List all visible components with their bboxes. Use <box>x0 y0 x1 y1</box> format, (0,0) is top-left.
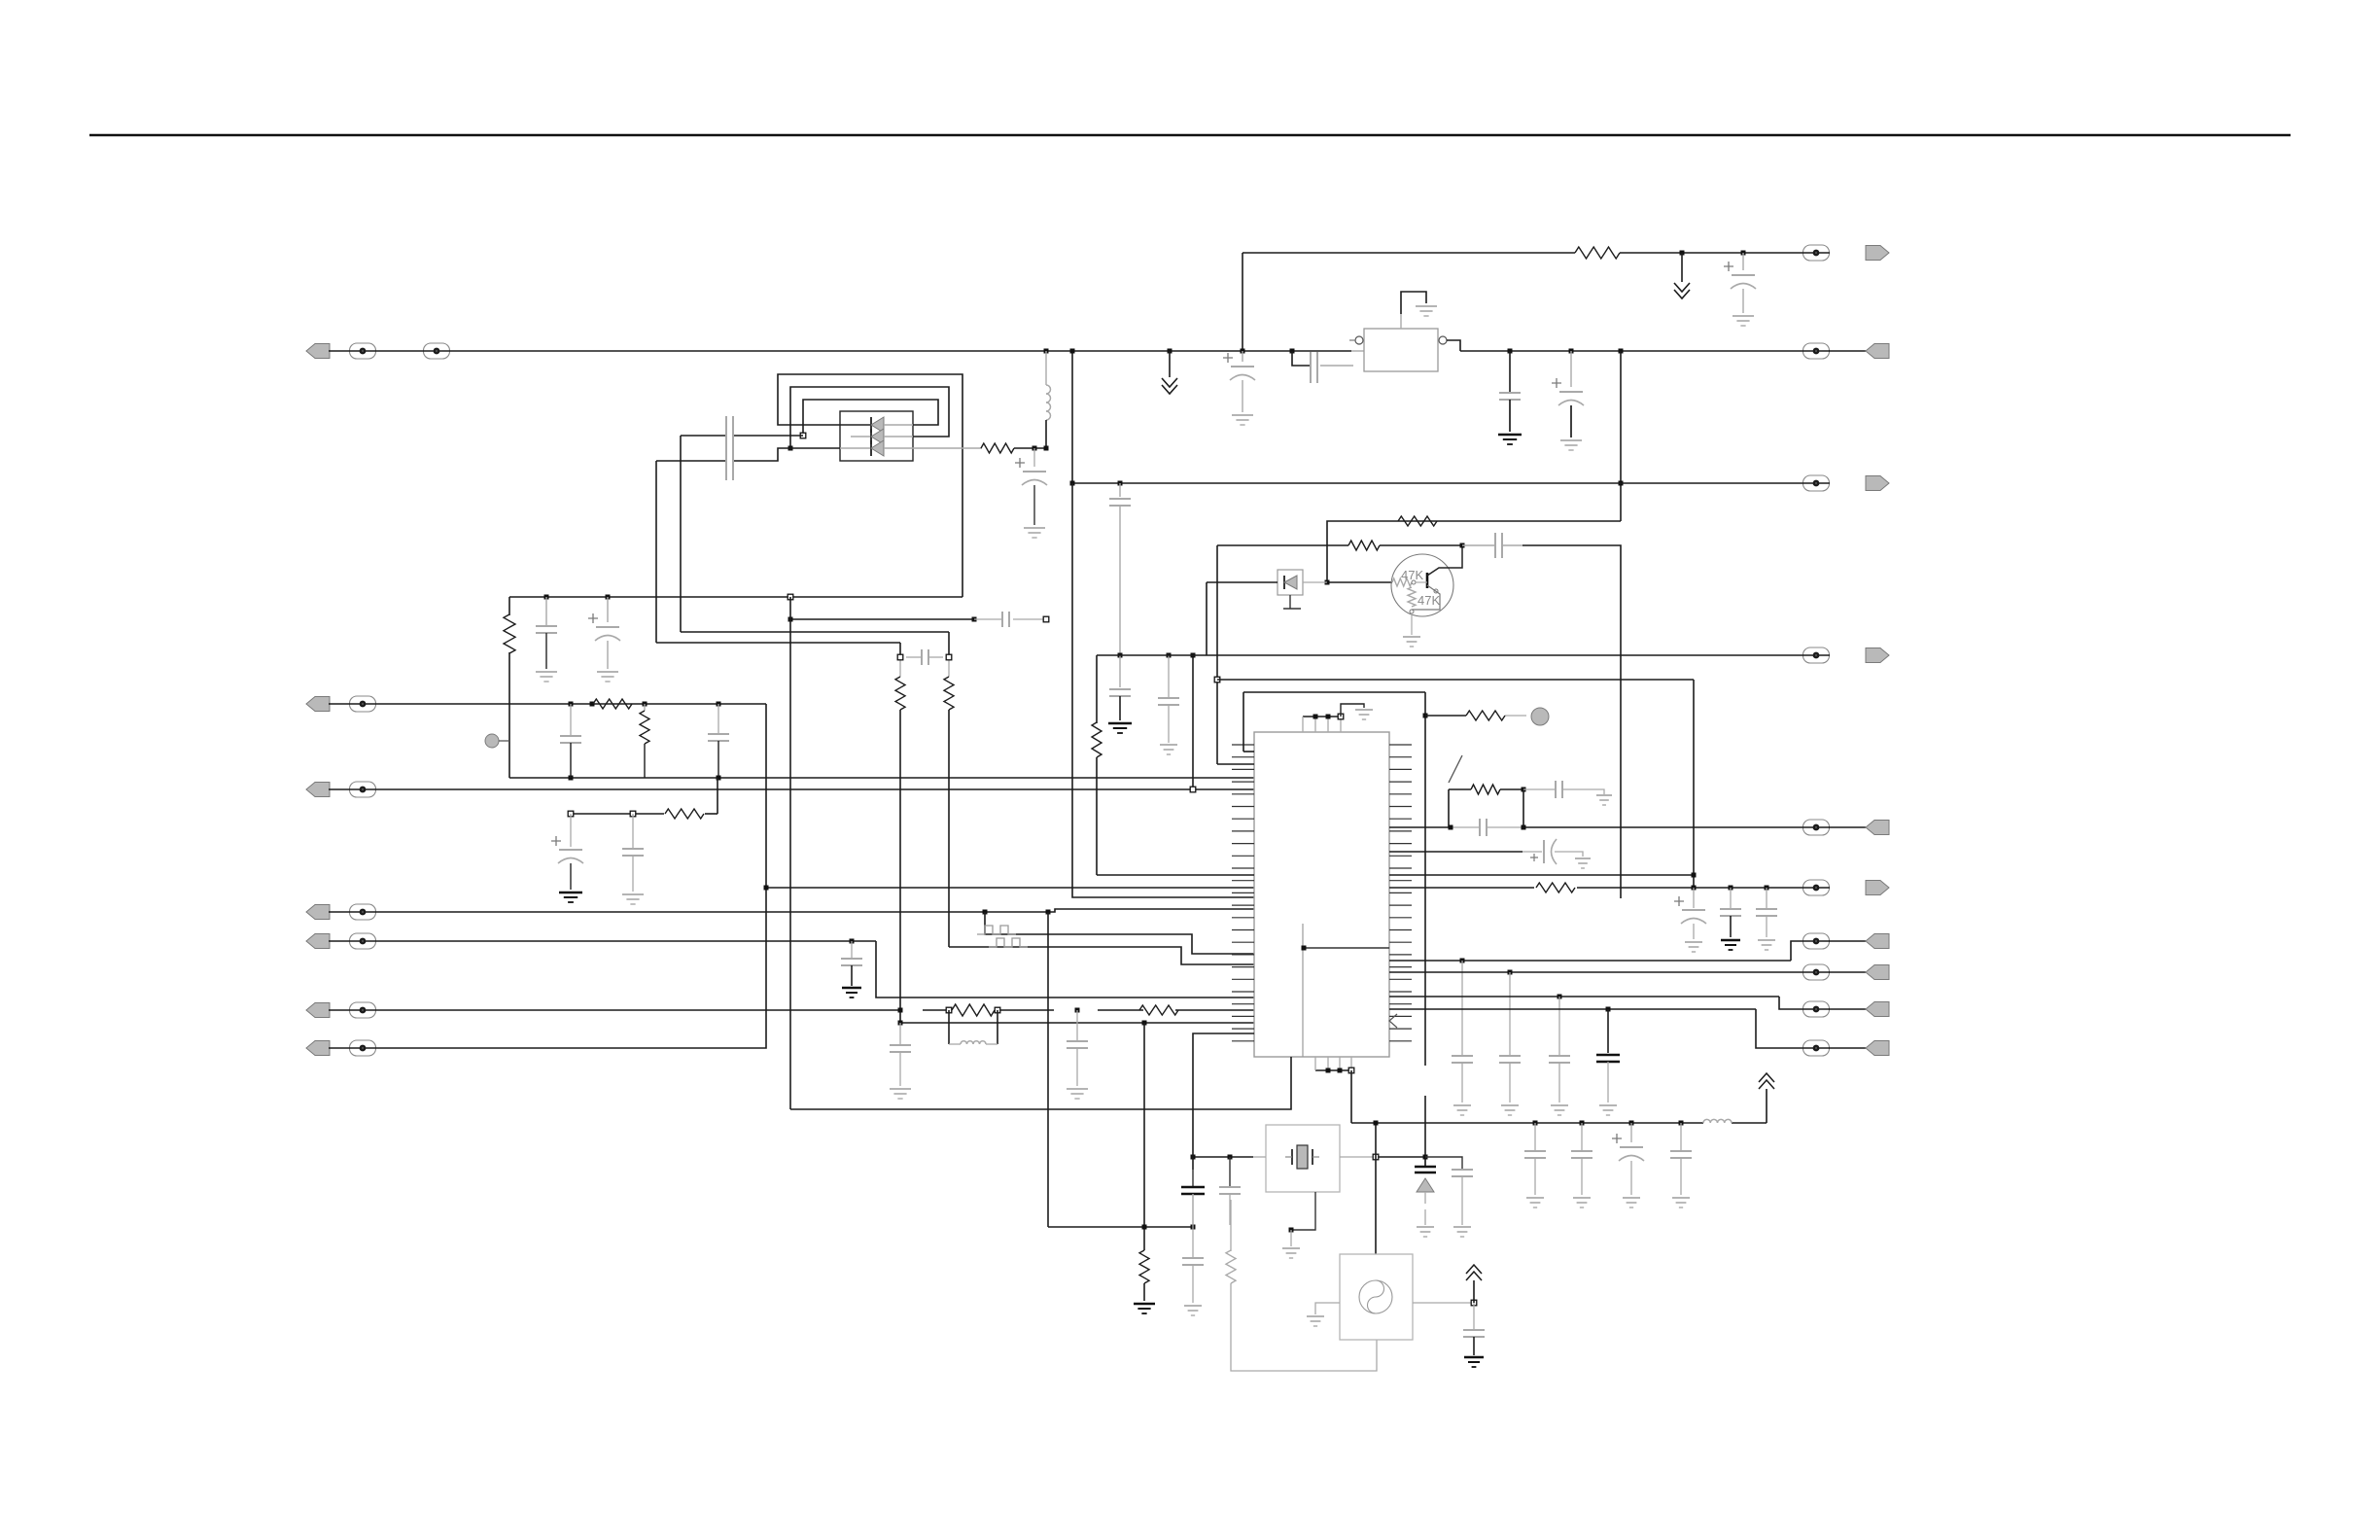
junction n614c <box>787 594 793 600</box>
junction b361-7 <box>1619 349 1624 354</box>
capacitor C42 <box>1452 1170 1473 1225</box>
wire v700 <box>680 436 682 632</box>
capacitor C24 elco <box>1552 378 1584 437</box>
wire sw h <box>1449 788 1471 790</box>
antenna feed <box>1766 1089 1767 1123</box>
wire v1227 low <box>1192 1157 1194 1258</box>
junction n851a <box>1449 825 1453 830</box>
diode D1 in box <box>1284 576 1297 589</box>
junction nL5a <box>898 1021 903 1026</box>
ground g36 <box>1573 1198 1591 1207</box>
wire base line <box>1327 581 1392 583</box>
elco C27 <box>1530 839 1583 864</box>
pulse glyph 2 <box>989 938 1028 947</box>
wire IC top bus <box>1303 717 1341 732</box>
resistor R20 <box>1575 247 1620 259</box>
wire c42 jog <box>1425 1157 1462 1170</box>
resistor R3 <box>640 711 649 778</box>
resistor R21 <box>1466 711 1505 720</box>
wire osc right <box>1413 1300 1477 1306</box>
capacitor C44 <box>1463 1303 1485 1355</box>
osc sym <box>1359 1280 1392 1313</box>
wire L3 <box>329 909 1254 912</box>
connector P9 right <box>1803 1001 1890 1017</box>
ground g25 <box>1596 795 1612 805</box>
junction no1 <box>1142 1225 1147 1230</box>
connector J4 left <box>306 904 376 920</box>
junction n1000 <box>1508 970 1513 1057</box>
junction n837a <box>568 811 574 847</box>
inductor L3 <box>1703 1119 1732 1123</box>
winding middle <box>790 387 949 448</box>
capacitor C41 <box>1181 1170 1205 1225</box>
junction nx4 <box>1423 1155 1428 1160</box>
junction n461a <box>1032 446 1037 468</box>
junction bp3 <box>1348 1067 1354 1073</box>
wire v1415b <box>1375 1157 1377 1254</box>
junction nL5c <box>1142 1021 1147 1026</box>
ground g21 <box>1232 415 1253 425</box>
wire line1141 <box>790 1057 1291 1109</box>
crystal box Y1 <box>1266 1125 1340 1192</box>
ground gU2 <box>1416 306 1437 316</box>
wire line614 <box>509 596 962 598</box>
capacitor C16 <box>841 959 862 986</box>
junction tp3 <box>1338 714 1344 719</box>
crystal sym <box>1285 1145 1319 1169</box>
junction nx3 <box>1373 1154 1379 1160</box>
ground g32 <box>1453 1105 1471 1115</box>
Q1 res base <box>1392 578 1416 586</box>
wire IC bottom bus <box>1315 1057 1351 1070</box>
ground g23 <box>1498 435 1522 444</box>
junction n900 <box>1692 873 1697 878</box>
capacitor C4b elco <box>1015 458 1047 525</box>
junction n913L <box>764 886 769 891</box>
Q1 emitter <box>1410 585 1440 613</box>
capacitor C11b <box>1109 689 1131 720</box>
ground gosc <box>1307 1316 1324 1326</box>
wire row1038r <box>1389 1009 1830 1048</box>
Q1 base bar <box>1416 573 1427 588</box>
capacitor C28 elco <box>1674 896 1706 939</box>
capacitor C8 <box>622 849 644 892</box>
wire gnd jog U1 <box>1341 704 1364 717</box>
capacitor C26 series <box>1480 819 1487 836</box>
wire r13 tail <box>1231 1283 1377 1371</box>
resistor R7 <box>952 1004 995 1016</box>
wire line536 <box>1327 521 1621 582</box>
junction bp1 <box>1326 1068 1331 1073</box>
ground g30 <box>1758 940 1775 950</box>
ground g3 <box>536 672 557 682</box>
junction n812a <box>1190 653 1196 792</box>
wire row876 <box>1389 851 1542 853</box>
resistor R23 <box>1536 883 1575 892</box>
capacitor C22 series <box>1311 352 1317 383</box>
resistor R1 <box>504 614 515 653</box>
junction n1039b <box>1075 1008 1080 1042</box>
capacitor C10 series <box>1002 612 1009 627</box>
wire v1466 <box>1424 692 1426 1157</box>
junction n800b <box>717 776 721 781</box>
capacitor C5 <box>708 704 729 778</box>
junction n614a <box>544 595 549 627</box>
ground g38 <box>1672 1198 1690 1207</box>
ground gQ1 <box>1403 637 1420 647</box>
junction n1039a <box>898 1008 903 1045</box>
junction n724b <box>643 702 647 712</box>
capacitor C7 elco <box>551 836 583 890</box>
junction b361-1 <box>1044 349 1049 354</box>
resistor R12 <box>1139 1250 1149 1301</box>
capacitor C33 <box>1549 1056 1570 1102</box>
junction n674b <box>1167 653 1172 698</box>
resistor R22 <box>1471 785 1500 794</box>
ground g11b <box>1108 723 1132 733</box>
junction n674cap <box>1118 653 1123 688</box>
node TP1 <box>485 734 509 748</box>
capacitor C12 series <box>1495 533 1502 558</box>
junction f2 <box>946 654 952 660</box>
junction m3 <box>1629 1121 1634 1143</box>
wire spk left <box>1207 582 1277 655</box>
connector P5 right <box>1803 820 1890 835</box>
wire v1415 <box>1374 1121 1379 1158</box>
junction m1 <box>1533 1121 1538 1152</box>
junction n913b <box>1729 886 1733 910</box>
IC U1 pin stubs <box>1232 745 1412 1041</box>
junction n913a <box>1692 886 1697 909</box>
connector P3 right <box>1803 475 1890 491</box>
speaker LS1 box <box>1277 570 1303 595</box>
wire sw v <box>1448 789 1450 827</box>
Q1 emit gnd wire <box>1411 613 1413 635</box>
ground g37 <box>1623 1198 1640 1207</box>
wire line561 <box>1217 544 1462 546</box>
wire row900 <box>1389 874 1694 876</box>
resistor R10 <box>1398 516 1437 526</box>
capacitor C43 <box>1182 1258 1204 1303</box>
capacitor C20 elco <box>1724 262 1756 313</box>
wire ant2 <box>1473 1280 1475 1303</box>
svg-text:47K: 47K <box>1417 593 1440 608</box>
wire line699 <box>1217 679 1694 681</box>
capacitor C15 <box>1158 698 1179 743</box>
wire bus812 <box>329 788 1254 790</box>
ground g16 <box>842 988 861 997</box>
ground g43 <box>1184 1306 1202 1315</box>
connector J6 left <box>306 1002 376 1018</box>
capacitor C3 <box>536 626 557 669</box>
capacitor C30 <box>1756 909 1777 937</box>
wire V+ top <box>1242 252 1830 254</box>
wire V+ drop <box>1242 253 1243 351</box>
resistor R9 <box>981 443 1014 453</box>
junction nL3 <box>1046 910 1051 915</box>
connector P7 right <box>1803 933 1890 949</box>
ground gD5 <box>1417 1227 1434 1237</box>
junction b361-4 <box>1290 349 1295 354</box>
capacitor C6 <box>560 736 581 778</box>
ground g44 <box>1464 1357 1484 1367</box>
junction b361-2 <box>1168 349 1172 378</box>
wire bus724 <box>329 703 766 705</box>
junction m4 <box>1679 1121 1684 1152</box>
resistor R8 <box>1139 1005 1178 1015</box>
wire to line1155 <box>1350 1070 1352 1123</box>
ground g24 <box>1560 440 1582 450</box>
regulator U2 box <box>1364 329 1438 371</box>
connector P2 right <box>1803 343 1890 359</box>
capacitor C31 <box>1499 1056 1521 1102</box>
capacitor C2 series <box>726 441 733 480</box>
capacitor C4 elco <box>588 613 620 669</box>
ground g14 <box>1067 1089 1088 1099</box>
node dot2 <box>1531 708 1549 725</box>
junction no2 <box>1191 1225 1196 1230</box>
junction n614b <box>606 595 611 623</box>
wire spk pin <box>1303 581 1327 583</box>
junction U1 int <box>1302 946 1307 951</box>
wire U2 top gnd <box>1401 292 1426 329</box>
capacitor C34 <box>1596 1055 1620 1102</box>
wire line497 <box>1072 482 1830 484</box>
winding outer <box>778 374 962 597</box>
ground g29 <box>1721 940 1740 950</box>
wire v813 <box>789 597 791 1109</box>
junction n1038r <box>1606 1007 1611 1054</box>
Q1 label 47K b <box>1417 593 1440 608</box>
junction n260a <box>1680 251 1685 283</box>
wire v675 <box>655 461 657 643</box>
connector P6 right <box>1803 880 1890 895</box>
wire U2 out <box>1447 340 1460 351</box>
IC U1 divider <box>1303 924 1389 1057</box>
junction b361-5 <box>1508 349 1513 394</box>
pin U2 right <box>1439 336 1447 344</box>
wire osc pin1 <box>1143 1023 1145 1250</box>
wire reg stub <box>1351 350 1364 352</box>
wire row913 <box>1389 887 1830 889</box>
connector J1 left <box>306 343 450 359</box>
diode D3 <box>851 429 913 444</box>
wire row1000 <box>1389 971 1830 973</box>
capacitor C25 series <box>1523 781 1604 798</box>
ground g4b <box>1024 528 1045 538</box>
wire v524 <box>508 597 510 778</box>
junction n1025 <box>1557 995 1562 1057</box>
wire v926 <box>899 643 901 1023</box>
winding inner <box>803 400 938 436</box>
resistor R6 <box>944 677 954 710</box>
ground g27 <box>1575 858 1591 868</box>
connector J2 left <box>306 696 376 712</box>
wire osc left <box>1315 1303 1340 1314</box>
pulse glyph 1 <box>977 926 1016 934</box>
connector P10 right <box>1803 1040 1890 1056</box>
ground g20 <box>1732 316 1754 326</box>
junction tp1 <box>1313 715 1318 719</box>
wire bus724 turn <box>329 704 766 1048</box>
connector P4 right <box>1803 647 1890 663</box>
junction nb <box>1325 580 1330 585</box>
osc U4 box <box>1340 1254 1413 1340</box>
ground g35 <box>1526 1198 1544 1207</box>
diode D4 <box>840 440 913 456</box>
junction n260b <box>1741 251 1746 271</box>
pin U2 left <box>1349 336 1363 344</box>
resistor R13 <box>1226 1250 1236 1283</box>
junction n448w <box>800 433 806 438</box>
transistor Q1 circle <box>1391 554 1453 616</box>
ground g31 <box>1501 1105 1519 1115</box>
wire v1227u <box>1192 655 1194 789</box>
capacitor C11 <box>1109 499 1131 655</box>
ground g12 <box>1134 1304 1155 1313</box>
switch S1 <box>1449 755 1462 783</box>
wire line1039 <box>329 1009 1254 1011</box>
junction nLC2 <box>995 1007 1000 1013</box>
inductor L1 <box>1046 351 1051 448</box>
Q1 collector <box>1427 545 1462 576</box>
header rule <box>89 134 2291 137</box>
junction bp2 <box>1338 1068 1343 1073</box>
wire v976 <box>949 632 1254 964</box>
ground g42 <box>1453 1227 1471 1237</box>
wire h961 <box>983 910 1255 955</box>
wire osc pin2 <box>1193 1033 1254 1157</box>
diode box U3 <box>840 411 913 461</box>
junction n736 <box>1423 714 1428 718</box>
junction n497x <box>1619 481 1624 486</box>
wire v1667 <box>1620 351 1622 521</box>
junction f1 <box>897 654 903 660</box>
wire h661 <box>656 642 900 644</box>
junction n837b <box>630 811 636 848</box>
resistor R4 <box>665 809 704 819</box>
capacitor C35 <box>1524 1151 1546 1195</box>
wire line1155 <box>1351 1122 1767 1124</box>
junction n724c <box>717 702 721 707</box>
diode D2 <box>840 417 913 433</box>
capacitor C9 series <box>906 649 943 665</box>
wire r736 <box>1425 715 1526 717</box>
connector P1 right <box>1803 245 1890 261</box>
junction nLC1 <box>946 1007 952 1013</box>
junction nx1 <box>1228 1155 1233 1160</box>
junction n461b <box>1044 446 1049 451</box>
junction n637c <box>1043 616 1049 622</box>
wire spk stub <box>1283 595 1301 609</box>
junction n637b <box>972 617 1002 622</box>
wire line800 <box>509 777 1254 779</box>
junction b361-6 <box>1569 349 1574 388</box>
chevron gnd sym <box>1674 283 1690 298</box>
wire v1103 <box>1070 349 1255 898</box>
junction n587 <box>569 702 574 737</box>
wire L4 <box>329 941 1254 997</box>
resistor R5 <box>895 677 905 710</box>
wire reg lower path <box>1292 351 1353 366</box>
wire row851 <box>1389 826 1830 828</box>
junction tp2 <box>1326 715 1331 719</box>
capacitor C32 <box>1452 1056 1473 1102</box>
ground g8 <box>622 894 644 904</box>
chevron ant <box>1759 1073 1774 1089</box>
wire row988 <box>1389 941 1830 961</box>
wire sw h2 <box>1500 788 1523 790</box>
capacitor C14 <box>1067 1041 1088 1086</box>
wire row1025 <box>1389 997 1830 1009</box>
svg-text:47K: 47K <box>1401 568 1423 582</box>
connector J5 left <box>306 933 376 949</box>
junction n637a <box>788 617 793 622</box>
wire xtal bottom <box>1289 1192 1316 1246</box>
ground g28 <box>1685 942 1702 952</box>
connector P8 right <box>1803 964 1890 980</box>
wire v739 low <box>717 778 718 814</box>
junction n913c <box>1765 886 1769 910</box>
wire line637 <box>790 618 1046 620</box>
ground gx <box>1282 1248 1300 1258</box>
junction n461w <box>788 446 793 451</box>
ground g34 <box>1599 1105 1617 1115</box>
resistor R2 <box>593 699 632 709</box>
junction n699a <box>1214 677 1220 682</box>
junction n851b <box>1522 825 1526 830</box>
resistor R14 <box>1092 722 1102 757</box>
capacitor C38 <box>1670 1151 1692 1195</box>
wire line913L <box>766 887 1254 889</box>
chevron sym2 <box>1162 378 1177 394</box>
wire h1262 <box>1048 1226 1193 1228</box>
junction n800a <box>569 776 574 781</box>
inductor L2 loop <box>949 1010 997 1044</box>
IC U1 arrow mark <box>1389 1014 1397 1028</box>
varactor D5 <box>1415 1157 1436 1225</box>
capacitor C23 <box>1499 393 1521 432</box>
wire line712 <box>1243 692 1425 752</box>
wire bus361 right <box>1460 350 1830 352</box>
junction nsw1 <box>1522 787 1526 828</box>
ground g4 <box>597 672 618 682</box>
junction n724a <box>590 702 595 707</box>
capacitor C40 <box>1219 1157 1241 1225</box>
wire v1742 <box>1693 680 1695 888</box>
connector J3 left <box>306 782 376 797</box>
wire v1078 <box>1047 912 1049 1227</box>
capacitor C21 elco <box>1223 353 1255 412</box>
wire line837 <box>571 813 717 815</box>
wire line674 <box>1097 654 1830 656</box>
junction nL4 <box>850 939 855 959</box>
wire v1128 <box>1097 655 1254 875</box>
ground g33 <box>1551 1105 1568 1115</box>
junction m2 <box>1580 1121 1585 1152</box>
wire v1266 chain <box>1230 1200 1232 1251</box>
junction n988 <box>1460 959 1465 1057</box>
wire line461 <box>913 447 1046 449</box>
ground g15 <box>1160 745 1177 754</box>
wire xtal right <box>1340 1156 1425 1158</box>
junction n497a <box>1118 481 1123 498</box>
ground gU1top <box>1355 710 1373 719</box>
Q1 label 47K a <box>1401 568 1423 582</box>
IC U1 body <box>1254 732 1389 1057</box>
resistor R11 <box>1348 541 1380 550</box>
wire h650 <box>681 631 949 633</box>
